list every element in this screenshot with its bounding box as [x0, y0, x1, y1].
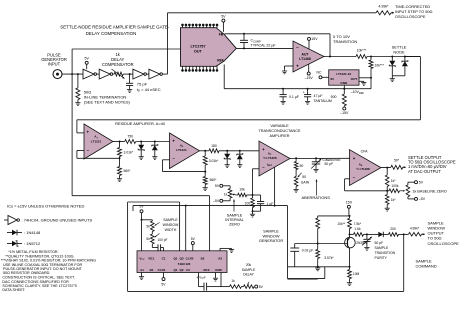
svg-text:CLR2: CLR2	[186, 256, 194, 260]
svg-text:: 1N5712: : 1N5712	[24, 241, 41, 246]
svg-text:5k: 5k	[146, 224, 150, 228]
svg-text:+: +	[296, 63, 299, 68]
svg-text:5V: 5V	[161, 283, 166, 287]
svg-text:100: 100	[245, 202, 251, 206]
svg-text:RC2: RC2	[203, 268, 209, 272]
svg-text:50*: 50*	[394, 159, 400, 163]
svg-text:WIDTH: WIDTH	[165, 228, 177, 232]
svg-text:LTC2757: LTC2757	[190, 44, 205, 48]
svg-text:LT1221: LT1221	[91, 139, 102, 143]
svg-text:+: +	[87, 130, 90, 135]
svg-text:5V: 5V	[215, 184, 220, 188]
svg-text:TRANSITION: TRANSITION	[375, 251, 396, 255]
svg-text:1k*: 1k*	[391, 179, 396, 183]
svg-text:560*: 560*	[124, 169, 132, 173]
svg-text:B1: B1	[150, 268, 154, 272]
svg-text:3.01k*: 3.01k*	[124, 151, 134, 155]
svg-text:A1: A1	[140, 268, 144, 272]
svg-text:3.57k*: 3.57k*	[324, 256, 334, 260]
svg-text:50: 50	[300, 164, 304, 168]
svg-text:+: +	[353, 156, 356, 161]
svg-text:SETTLE-NODE RESIDUE AMPLIFIER: SETTLE-NODE RESIDUE AMPLIFIER SAMPLE GAT…	[60, 25, 170, 30]
svg-text:50 pF: 50 pF	[375, 241, 384, 245]
svg-text:SAMPLE: SAMPLE	[242, 268, 256, 272]
svg-text:LT1221: LT1221	[176, 148, 187, 152]
svg-text:OSCILLOSCOPE: OSCILLOSCOPE	[428, 241, 460, 246]
svg-text:LT1468: LT1468	[299, 57, 311, 61]
svg-text:47 µF: 47 µF	[314, 94, 323, 98]
svg-text:0.02 µF: 0.02 µF	[302, 249, 314, 253]
svg-text:5V: 5V	[419, 180, 424, 184]
svg-text:3.01k*: 3.01k*	[209, 159, 219, 163]
svg-text:TANTALUM: TANTALUM	[314, 99, 332, 103]
svg-text:DELAY: DELAY	[243, 272, 254, 276]
svg-text:1k*: 1k*	[391, 198, 396, 202]
svg-text:5V: 5V	[259, 285, 264, 289]
svg-text:NC: NC	[317, 70, 322, 74]
svg-text:COMMAND: COMMAND	[416, 264, 437, 269]
svg-text:20k: 20k	[246, 263, 252, 267]
svg-text:75 pF: 75 pF	[137, 82, 148, 87]
svg-text:C1: C1	[162, 256, 166, 260]
svg-text:1k BASELINE ZERO: 1k BASELINE ZERO	[413, 189, 447, 193]
svg-text:RESIDUE AMPLIFIER, A=40: RESIDUE AMPLIFIER, A=40	[115, 121, 166, 126]
svg-text:750: 750	[127, 135, 133, 139]
svg-text:–15V: –15V	[305, 76, 314, 80]
svg-text:VARIABLE: VARIABLE	[270, 124, 289, 128]
svg-text:10k***: 10k***	[375, 64, 385, 68]
svg-text:INPUT: INPUT	[48, 62, 61, 67]
svg-text:–: –	[296, 45, 299, 50]
svg-text:5V: 5V	[139, 205, 144, 209]
svg-text:+: +	[172, 138, 175, 143]
svg-text:100k: 100k	[391, 184, 399, 188]
svg-text:tD = 44 nSEC: tD = 44 nSEC	[137, 87, 161, 93]
svg-text:(SEE TEXT AND NOTES): (SEE TEXT AND NOTES)	[84, 99, 131, 104]
svg-text:CFA: CFA	[361, 150, 368, 154]
svg-text:TRANSCONDUCTANCE: TRANSCONDUCTANCE	[258, 129, 301, 133]
svg-text:10k**: 10k**	[337, 222, 346, 226]
svg-text:4.99k*: 4.99k*	[378, 4, 389, 8]
svg-text:REF: REF	[217, 59, 224, 63]
svg-text:5k: 5k	[146, 237, 150, 241]
svg-text:Q2: Q2	[179, 268, 183, 272]
svg-text:AUT: AUT	[302, 52, 310, 56]
svg-text:OSCILLOSCOPE: OSCILLOSCOPE	[395, 14, 426, 19]
svg-text:1.6k: 1.6k	[354, 227, 361, 231]
svg-text:470 pF: 470 pF	[197, 275, 207, 279]
svg-text:560*: 560*	[210, 178, 218, 182]
svg-text:5V: 5V	[84, 57, 89, 61]
svg-text:OUT: OUT	[351, 77, 358, 81]
svg-text:10M: 10M	[353, 272, 360, 276]
svg-text:½ LT1228: ½ LT1228	[356, 167, 370, 171]
svg-text:WINDOW: WINDOW	[163, 223, 179, 227]
svg-text:200: 200	[390, 227, 396, 231]
svg-text:15V: 15V	[311, 37, 318, 41]
svg-text:100 pF: 100 pF	[158, 238, 168, 242]
svg-text:: 1N4148: : 1N4148	[24, 230, 41, 235]
svg-text:ICs = ±15V UNLESS OTHERWISE NO: ICs = ±15V UNLESS OTHERWISE NOTED	[7, 203, 84, 208]
svg-text:Q1: Q1	[173, 256, 177, 260]
svg-text:5V: 5V	[221, 15, 226, 19]
svg-text:1k: 1k	[231, 279, 235, 283]
svg-text:50Ω RESISTOR ONBOARD.: 50Ω RESISTOR ONBOARD.	[3, 271, 50, 275]
svg-text:B2: B2	[201, 256, 205, 260]
svg-text:DELAY COMPENSATION: DELAY COMPENSATION	[86, 31, 137, 36]
svg-text:50: 50	[302, 175, 306, 179]
svg-text:Q1: Q1	[173, 268, 177, 272]
svg-text:AT DAC-OUTPUT: AT DAC-OUTPUT	[408, 169, 441, 174]
svg-text:7.5k*: 7.5k*	[354, 222, 362, 226]
svg-text:TRANSITION: TRANSITION	[333, 39, 357, 44]
svg-text:PURITY: PURITY	[375, 256, 388, 260]
svg-text:GND: GND	[340, 81, 348, 85]
svg-text:½ LT1228: ½ LT1228	[263, 156, 277, 160]
svg-text:10k: 10k	[239, 188, 245, 192]
svg-text:10k***: 10k***	[357, 49, 367, 53]
svg-text:ABERRATIONS: ABERRATIONS	[302, 195, 331, 200]
svg-text:: 74HC04, GROUND UNUSED INPUTS: : 74HC04, GROUND UNUSED INPUTS	[22, 218, 93, 223]
svg-text:–5V: –5V	[419, 197, 426, 201]
svg-text:SAMPLE: SAMPLE	[375, 246, 389, 250]
svg-text:GENERATOR: GENERATOR	[259, 238, 283, 243]
svg-text:1k: 1k	[224, 192, 228, 196]
svg-text:–15V: –15V	[340, 111, 349, 115]
svg-text:SAMPLE: SAMPLE	[163, 218, 178, 222]
svg-text:GAIN: GAIN	[301, 180, 310, 184]
svg-text:180: 180	[211, 144, 217, 148]
svg-text:DATA SHEET.: DATA SHEET.	[2, 288, 25, 292]
svg-text:AMPLIFIER: AMPLIFIER	[269, 134, 289, 138]
svg-text:FB: FB	[219, 33, 224, 37]
svg-text:15V: 15V	[346, 200, 353, 204]
svg-text:TYPICAL 22 µF: TYPICAL 22 µF	[251, 43, 277, 47]
svg-text:4.99k*: 4.99k*	[410, 226, 420, 230]
svg-text:0.1 µF: 0.1 µF	[289, 95, 299, 99]
svg-text:RC1: RC1	[148, 256, 154, 260]
svg-text:NODE: NODE	[393, 50, 405, 55]
svg-text:ZERO: ZERO	[229, 222, 240, 227]
svg-text:COMPENSATOR: COMPENSATOR	[102, 62, 134, 67]
svg-text:LT1021-10: LT1021-10	[336, 72, 351, 76]
svg-text:Q3: Q3	[179, 256, 183, 260]
svg-text:5V: 5V	[191, 237, 196, 241]
svg-text:GND: GND	[215, 268, 223, 272]
svg-text:–5V: –5V	[213, 199, 220, 203]
svg-text:DUT: DUT	[194, 49, 202, 53]
svg-text:+: +	[303, 91, 305, 95]
svg-text:50 pF: 50 pF	[325, 162, 334, 166]
svg-text:C2: C2	[186, 268, 190, 272]
svg-text:CLR1: CLR1	[158, 268, 166, 272]
svg-text:500: 500	[331, 95, 337, 99]
svg-text:+: +	[262, 147, 265, 152]
svg-text:A3: A3	[218, 256, 222, 260]
svg-text:74HC123: 74HC123	[178, 262, 191, 266]
